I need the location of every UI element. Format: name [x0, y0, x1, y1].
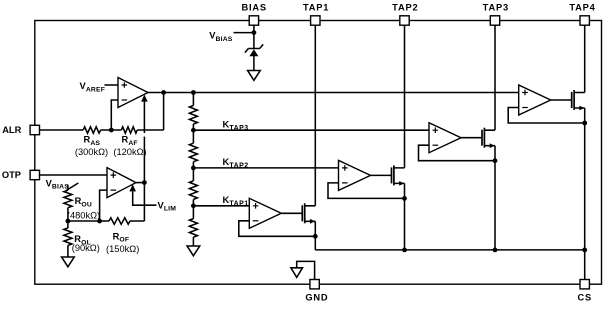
junction bus/CS line	[582, 248, 587, 253]
svg-text:(300kΩ): (300kΩ)	[75, 147, 108, 157]
zener diode D1	[245, 44, 263, 52]
op-amp U2 (VLIM)	[107, 168, 136, 198]
wire Q1 drain to TAP1 pin	[314, 21, 316, 206]
pin CS	[580, 280, 589, 289]
transistor Q2	[391, 167, 393, 183]
wire BIAS pin to zener	[253, 21, 255, 49]
transistor Q1	[301, 205, 303, 221]
junction bus/TAP3	[493, 248, 498, 253]
svg-text:(120kΩ): (120kΩ)	[113, 147, 146, 157]
wire VLIM net vertical with arrow into U1	[143, 101, 145, 182]
op-amp U4 (TAP2 channel)	[339, 160, 371, 190]
wire VBIAS to BIAS node	[234, 32, 254, 34]
pin BIAS	[249, 16, 258, 25]
junction U2 output	[142, 180, 147, 185]
wire KTAP3 row	[193, 129, 429, 131]
resistor chain 3	[189, 181, 197, 200]
wire U6 feedback	[508, 108, 585, 124]
wire Q4 drain to TAP4 pin	[584, 21, 586, 93]
wire U2 output	[136, 182, 144, 184]
junction Q1 source sense node	[313, 234, 318, 239]
resistor RAS	[83, 127, 100, 133]
ground (resistor chain)	[187, 246, 200, 256]
junction RAS/RAF	[109, 128, 114, 133]
resistor ROF	[109, 218, 130, 224]
transistor Q4	[571, 92, 573, 108]
wire U3 feedback	[239, 221, 315, 237]
pin ALR	[30, 125, 39, 134]
svg-text:TAP2: TAP2	[392, 3, 418, 13]
ground (BIAS zener)	[248, 71, 261, 81]
wire Q2 source down	[404, 183, 406, 250]
wire VLIM tap with arrow into U2	[133, 191, 157, 205]
transistor Q3	[481, 130, 483, 146]
resistor ROL	[67, 221, 69, 228]
wire Q1 source down	[314, 221, 316, 250]
junction BIAS node	[252, 30, 257, 35]
wire U5 output to Q3 gate	[461, 137, 482, 139]
op-amp U3 (TAP1 channel)	[249, 198, 281, 228]
pin GND	[310, 280, 319, 289]
resistor ROU	[64, 190, 72, 207]
svg-text:TAP1: TAP1	[303, 3, 329, 13]
ground (internal GND)	[291, 268, 303, 278]
junction KTAP2 tap	[191, 166, 196, 171]
wire ROL to ground	[67, 245, 69, 257]
ground (ROL)	[62, 257, 75, 267]
wire zener to ground	[253, 56, 255, 71]
wire Q4 source down	[584, 108, 586, 250]
junction U1 output/feedback	[161, 90, 166, 95]
wire U2 inverting input	[100, 190, 107, 221]
pin TAP2	[400, 16, 409, 25]
wire ROU to node	[67, 208, 69, 221]
svg-text:TAP4: TAP4	[569, 3, 595, 13]
pin TAP1	[311, 16, 320, 25]
svg-text:(480kΩ): (480kΩ)	[67, 210, 100, 220]
svg-text:(150kΩ): (150kΩ)	[106, 244, 139, 254]
op-amp U6 (TAP4 channel)	[519, 85, 551, 115]
junction Q4 source sense node	[582, 121, 587, 126]
wire U1 output row	[148, 92, 519, 94]
resistor RAF	[121, 127, 137, 133]
wire U1 inverting input to RAS/RAF node	[111, 100, 118, 130]
svg-text:BIAS: BIAS	[241, 3, 266, 13]
wire U5 feedback	[419, 145, 496, 161]
wire U2 output to ROF	[143, 183, 145, 221]
wire CS line to pin	[584, 250, 586, 284]
wire VBIAS stub with tick	[66, 183, 78, 191]
resistor chain KTAP3 top	[192, 93, 194, 106]
pin TAP4	[580, 16, 589, 25]
wire U4 feedback	[328, 183, 405, 199]
svg-text:TAP3: TAP3	[483, 3, 509, 13]
wire OTP row to U2 non-inverting input	[35, 174, 107, 176]
wire ALR row	[35, 129, 164, 131]
device boundary box	[35, 21, 602, 285]
wire U4 output to Q2 gate	[371, 174, 392, 176]
wire VAREF to U1 non-inverting input	[105, 84, 119, 86]
junction Q2 source sense node	[402, 196, 407, 201]
svg-text:(90kΩ): (90kΩ)	[72, 243, 100, 253]
wire KTAP1 row	[193, 205, 249, 207]
op-amp U1 (VAREF buffer)	[118, 78, 148, 108]
resistor chain 2	[189, 143, 197, 162]
op-amp U5 (TAP3 channel)	[429, 123, 461, 153]
wire KTAP2 row	[193, 167, 338, 169]
junction chain top	[191, 90, 196, 95]
svg-text:ALR: ALR	[2, 125, 21, 135]
junction Q3 source sense node	[493, 158, 498, 163]
pin TAP3	[490, 16, 499, 25]
wire GND pin to internal ground	[297, 261, 315, 284]
svg-text:CS: CS	[578, 293, 593, 303]
junction U2 inverting tap	[97, 219, 102, 224]
svg-text:OTP: OTP	[2, 170, 21, 180]
resistor chain 4	[189, 219, 197, 238]
wire Q3 source down	[494, 146, 496, 250]
svg-text:GND: GND	[305, 293, 328, 303]
junction ROU/ROL/ROF	[66, 219, 71, 224]
junction KTAP1 tap	[191, 203, 196, 208]
wire source bus to CS	[315, 249, 584, 251]
junction KTAP3 tap	[191, 128, 196, 133]
wire Q2 drain to TAP2 pin	[404, 21, 406, 168]
wire U3 output to Q1 gate	[281, 212, 302, 214]
wire Q3 drain to TAP3 pin	[494, 21, 496, 131]
wire U1 feedback (RAF to output)	[163, 93, 165, 131]
pin OTP	[30, 170, 39, 179]
wire U6 output to Q4 gate	[551, 99, 572, 101]
junction bus/TAP2	[402, 248, 407, 253]
wire ROF row	[68, 220, 144, 222]
